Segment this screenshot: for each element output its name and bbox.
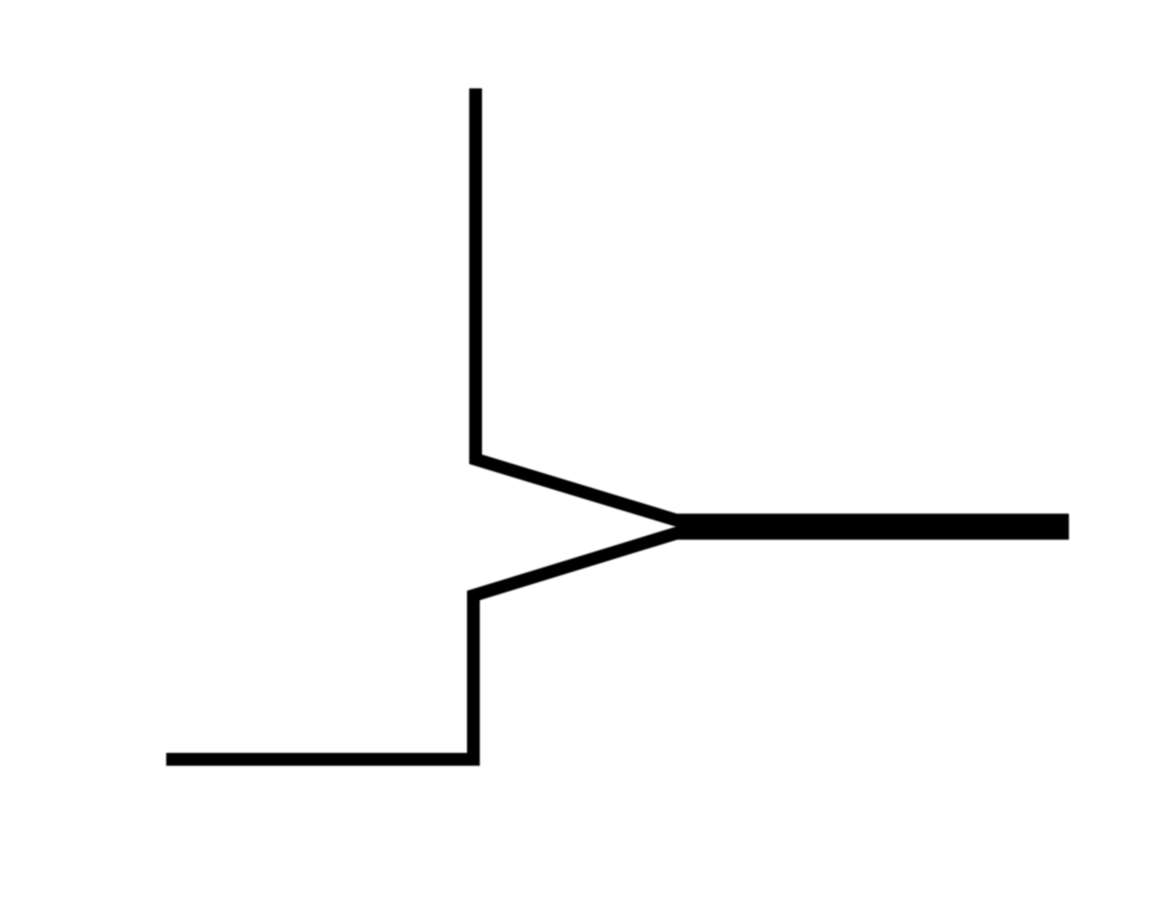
wire: upper branch (vertical drop, diagonal into junction, horizontal run to output) (476, 88, 1069, 520)
wire: lower branch (horizontal from left, vertical rise, diagonal into junction, horizontal run to output) (166, 533, 1069, 759)
junction / merged output bus (solid thick run after the two branches meet) (677, 514, 1069, 540)
